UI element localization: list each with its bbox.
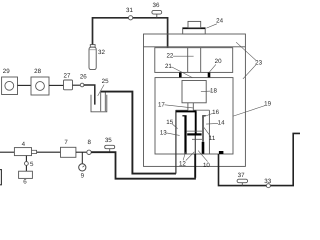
- svg-text:5: 5: [30, 161, 34, 168]
- component 4: [14, 141, 36, 156]
- svg-text:31: 31: [126, 7, 133, 14]
- label 22: [166, 53, 193, 60]
- svg-text:15: 15: [166, 119, 173, 126]
- svg-text:36: 36: [153, 2, 160, 9]
- svg-text:20: 20: [215, 58, 222, 65]
- svg-text:14: 14: [218, 120, 225, 127]
- sample box 18: [182, 81, 217, 103]
- wire into humidifier: [84, 85, 95, 105]
- chamber divider left: [187, 48, 189, 73]
- svg-text:6: 6: [23, 179, 27, 186]
- label 17: [158, 101, 193, 108]
- cell flange: [176, 109, 210, 111]
- component 6: [19, 171, 33, 185]
- svg-text:26: 26: [80, 73, 87, 80]
- label 20: [210, 58, 223, 72]
- valve 31: [126, 7, 133, 20]
- svg-text:25: 25: [102, 78, 109, 85]
- gas cylinder 32: [89, 45, 105, 70]
- bottom chain wire left: [0, 151, 14, 153]
- pump 29: [2, 68, 18, 95]
- filter 27: [64, 73, 73, 90]
- chamber divider right: [200, 48, 202, 73]
- component 7: [61, 139, 76, 158]
- svg-text:27: 27: [64, 73, 71, 80]
- svg-text:35: 35: [105, 137, 112, 144]
- vessel outer box: [144, 34, 246, 166]
- drain joint: [219, 151, 224, 154]
- electrode stub right: [208, 73, 211, 78]
- valve 26: [80, 73, 87, 86]
- svg-text:37: 37: [238, 172, 245, 179]
- label 10: [198, 151, 210, 169]
- svg-text:32: 32: [98, 49, 105, 56]
- regulator 36: [152, 2, 162, 18]
- valve 8: [87, 139, 92, 155]
- wire: [76, 151, 87, 153]
- svg-text:29: 29: [3, 68, 10, 75]
- valve 33: [264, 178, 271, 188]
- label 13: [160, 129, 180, 136]
- wire: [73, 84, 81, 86]
- wire humidifier outlet: [101, 92, 176, 174]
- svg-text:9: 9: [81, 173, 85, 180]
- motor 24: [183, 18, 224, 35]
- label 14: [206, 120, 225, 127]
- label 15: [166, 119, 177, 129]
- sensor 35: [105, 137, 115, 152]
- cell right wall: [208, 110, 210, 154]
- pump 28: [31, 68, 49, 95]
- humidifier 25: [91, 78, 109, 112]
- gauge 9: [79, 152, 86, 179]
- box at left edge: [0, 170, 1, 185]
- label 16: [203, 109, 220, 117]
- svg-text:19: 19: [264, 100, 271, 107]
- wire to cell bottom: [91, 152, 196, 179]
- stem: [188, 103, 193, 110]
- crucible top bar: [176, 110, 196, 112]
- wire: [37, 151, 61, 153]
- upper chamber: [155, 48, 233, 73]
- sample stack: [186, 131, 202, 139]
- wire top gas line: [93, 18, 168, 48]
- svg-text:8: 8: [87, 139, 91, 146]
- svg-text:17: 17: [158, 101, 165, 108]
- svg-text:16: 16: [212, 109, 219, 116]
- label 19: [233, 100, 271, 116]
- valve 5: [25, 156, 34, 172]
- wire: [49, 84, 64, 86]
- drain wire: [219, 133, 301, 185]
- svg-text:13: 13: [160, 129, 167, 136]
- svg-text:23: 23: [255, 59, 262, 66]
- svg-text:4: 4: [22, 141, 26, 148]
- electrode stub left: [179, 73, 182, 78]
- sensor 37: [237, 172, 248, 186]
- vessel lid line: [144, 46, 246, 48]
- svg-text:33: 33: [264, 178, 271, 185]
- cell left wall: [175, 110, 177, 173]
- center rod lower: [194, 136, 196, 178]
- svg-text:21: 21: [165, 63, 172, 70]
- svg-text:28: 28: [34, 68, 41, 75]
- svg-text:18: 18: [210, 88, 217, 95]
- label 11: [204, 127, 216, 141]
- crucible right leg / rod upper: [195, 111, 197, 135]
- svg-text:10: 10: [203, 162, 210, 169]
- inner box: [155, 78, 233, 154]
- label 21: [165, 63, 193, 78]
- label 23: [236, 42, 262, 79]
- svg-text:24: 24: [216, 18, 223, 25]
- svg-text:22: 22: [166, 53, 173, 60]
- svg-text:7: 7: [64, 139, 68, 146]
- tube right: [202, 116, 206, 154]
- svg-text:12: 12: [179, 160, 186, 167]
- inner electrode left: [182, 116, 186, 154]
- label 12: [179, 152, 194, 168]
- wire: [18, 84, 32, 86]
